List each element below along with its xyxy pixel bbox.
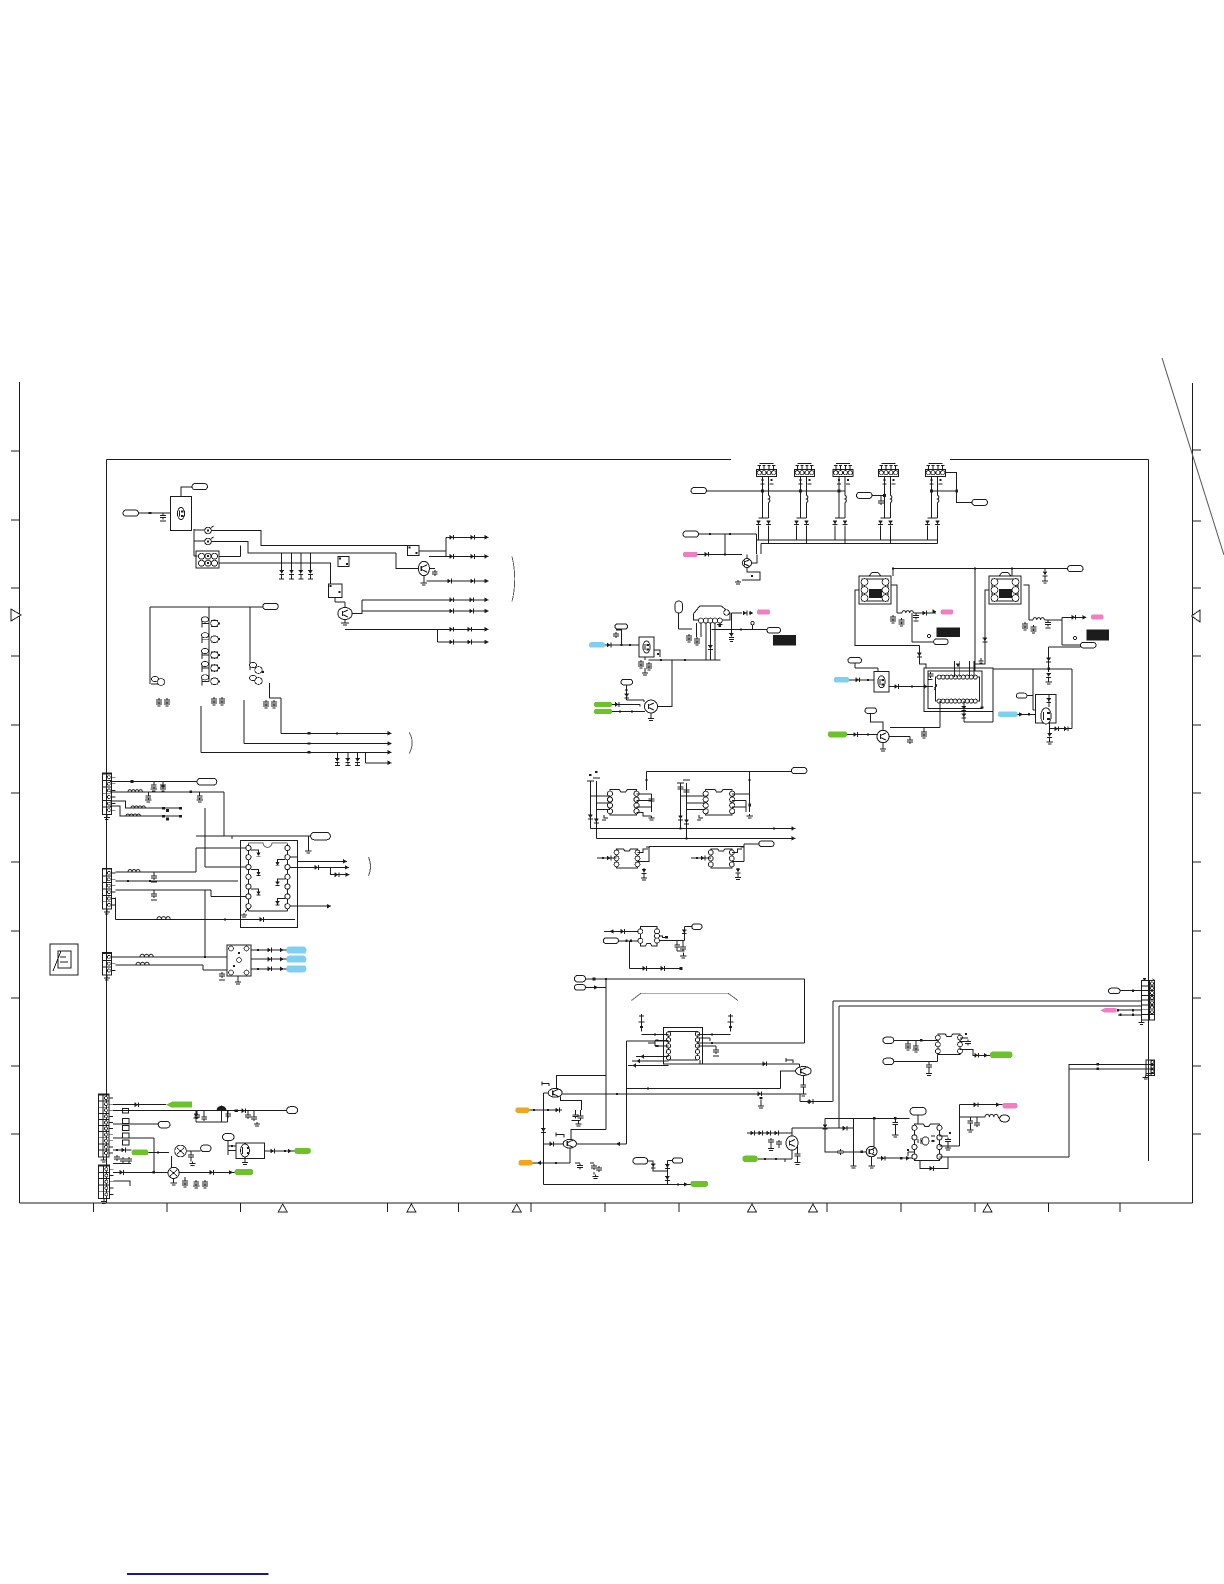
U-F2 right hook xyxy=(732,849,742,852)
ground G-F1 xyxy=(604,815,608,818)
wire K row5 xyxy=(113,1149,132,1151)
wire to Q-I5 xyxy=(543,1143,563,1145)
U-J1 right caps xyxy=(960,1037,968,1039)
wire bus B2 xyxy=(243,700,245,744)
cap C-J3 xyxy=(894,1121,896,1123)
transistor pair QB7 right xyxy=(249,662,251,670)
left ruler triangle marker xyxy=(11,609,21,621)
transistor pair QB1 xyxy=(201,619,203,627)
transistor Q-I2 right flank xyxy=(730,1020,732,1032)
U-I1 right wire to drop xyxy=(698,1042,805,1044)
U-F1 caps xyxy=(643,868,645,870)
wire Q-K1 to PK3 xyxy=(186,1150,200,1152)
wire PC2 to header 4 xyxy=(872,494,885,496)
bus C lower xyxy=(761,543,938,545)
fan-out line L2 xyxy=(429,555,489,557)
wire G3 row2 xyxy=(115,964,203,966)
wire K row1 xyxy=(113,1104,166,1106)
capacitor C-D0 xyxy=(1044,569,1046,572)
left ruler line xyxy=(19,382,21,1203)
wire rail drop left xyxy=(646,771,648,790)
wire Q-K3 row xyxy=(179,1171,235,1173)
transistor pair QB3 xyxy=(201,651,203,659)
wire riser x959 xyxy=(958,1105,960,1146)
label oval PE1 vertical xyxy=(675,601,683,613)
cap C-G5 xyxy=(153,892,155,894)
cap C-D9 left xyxy=(930,672,932,674)
wire J2 web left riser xyxy=(853,1118,855,1151)
U-D1 bottom pin drop mid xyxy=(963,701,965,722)
wire PI2 to riser xyxy=(586,986,606,988)
wire PD3 tail xyxy=(1095,647,1097,649)
wire OR-I2 row xyxy=(533,1162,570,1164)
bracket net-G xyxy=(369,857,371,876)
cyan tag CY-G1 xyxy=(286,947,306,954)
IC U-G1 outer xyxy=(240,840,297,927)
label oval PJ1 xyxy=(1109,988,1121,993)
transistor pair QB2 xyxy=(201,635,203,643)
pink tag PK-J1 arrow xyxy=(1100,1008,1116,1012)
wire PE4 down xyxy=(620,629,622,645)
right connector CN-J2 ladder xyxy=(1146,1060,1154,1075)
transistor D-K1 blob xyxy=(217,1106,227,1111)
right ruler ticks xyxy=(1193,449,1202,451)
label oval PI4 xyxy=(672,1158,682,1163)
gate Q-I5 xyxy=(556,1135,564,1138)
wire U-G1 bottom-left gnd xyxy=(245,909,248,912)
wire F-c xyxy=(649,845,744,847)
wire U-I1 to Q-I2 xyxy=(698,1034,731,1036)
wire B left leg xyxy=(792,1127,854,1129)
Q-D3 top stub xyxy=(1048,694,1050,707)
wire B right drop xyxy=(249,607,251,662)
IC U-J2 xyxy=(914,1124,939,1161)
transistor Q-D3 xyxy=(1041,708,1051,724)
revision tag box xyxy=(50,944,78,975)
wire U-J2 gnd stub xyxy=(908,1151,914,1153)
wire WD right rail xyxy=(993,668,1072,670)
ground G-F4 xyxy=(749,814,751,816)
label oval PC1 xyxy=(691,488,707,494)
U-I1 bottom-left arrows xyxy=(636,1056,669,1058)
T-F1 right outputs xyxy=(637,793,652,795)
cyan tag CY-D2 xyxy=(998,711,1018,717)
fan-out line L3 xyxy=(427,580,489,582)
caps C-K3 xyxy=(247,1113,249,1115)
label oval PJ4 xyxy=(910,1107,926,1115)
wire B top rail xyxy=(150,606,263,608)
drop I-right xyxy=(803,979,805,1043)
IC U-G2 xyxy=(227,945,251,976)
wire D top rail xyxy=(893,568,1068,570)
wire F-A2 to Q-A2 xyxy=(396,553,419,568)
wire B left drop xyxy=(149,607,151,676)
caps C-J2 xyxy=(928,1063,930,1065)
label oval PE4 xyxy=(615,624,628,629)
transistor Q-I5 xyxy=(563,1139,576,1148)
schematic border right edge xyxy=(1148,460,1150,1162)
cyan tag CY-D1 xyxy=(834,677,849,683)
connector CN-J1 right edge ladder xyxy=(1142,981,1155,1020)
wire Q-I3 top feed xyxy=(557,1076,606,1089)
label oval PD2 xyxy=(934,639,949,645)
wire PI4 drop xyxy=(667,1159,672,1161)
wire bridge out upper xyxy=(219,555,241,557)
caps C-I2 xyxy=(575,1110,577,1113)
cyan tag CY-E xyxy=(589,642,605,648)
wire U-E1 to pink xyxy=(732,612,743,614)
resistor R-G1b xyxy=(162,815,165,818)
wire CN-J2 feed pair xyxy=(1069,1064,1146,1157)
caps C-K1 xyxy=(196,1111,198,1113)
cyan tag CY-G2 xyxy=(286,956,306,963)
wire Q-C1 net xyxy=(752,554,758,563)
IC U-G1 body rails xyxy=(247,844,249,912)
gate Q-I3 xyxy=(542,1084,549,1087)
wire U-I1 right-top xyxy=(698,1037,711,1039)
U-D1 bottom loop xyxy=(964,721,993,723)
caps under row5 xyxy=(116,1155,118,1157)
wire X-D2 right out xyxy=(1024,585,1030,620)
U-J2 right glyph xyxy=(932,1140,935,1142)
Q-D3 emitter gnd xyxy=(1049,729,1051,733)
capacitor C-C4 xyxy=(880,499,882,501)
caps C-D1 xyxy=(892,615,894,617)
tiny circle node D2 xyxy=(927,634,930,637)
schematic border top-right segment xyxy=(950,459,1149,461)
transistor Q-J1 xyxy=(866,1146,877,1156)
header J-C4 xyxy=(879,470,899,477)
label oval PF1 xyxy=(791,768,807,774)
wire Q-I5 top xyxy=(571,1129,606,1139)
cap C-G4 xyxy=(153,874,155,876)
wire header5 to PC3 xyxy=(946,473,973,503)
black patch BB-E xyxy=(773,635,796,646)
ground G-K3 xyxy=(173,1179,175,1182)
bus C upper xyxy=(757,539,938,541)
fan-out line L4 xyxy=(362,599,489,601)
wire bus B4 xyxy=(365,762,391,764)
coil L-D2 xyxy=(1029,619,1033,621)
bottom border triangle markers xyxy=(278,1204,287,1212)
ground G-J1 xyxy=(853,1152,855,1164)
wire pink row xyxy=(698,553,743,555)
cap C-J4 on wire xyxy=(840,1149,842,1151)
wire U-J2 right2 xyxy=(939,1135,948,1137)
label oval PG1 xyxy=(197,778,217,785)
resistor R-K2 xyxy=(235,1110,238,1112)
wire PH1 to U-H1 xyxy=(619,940,638,942)
label oval PK1 xyxy=(287,1107,298,1114)
transistor Q-D1 box xyxy=(874,672,889,693)
U-F1 right wire xyxy=(637,861,649,863)
wire Q-A1 emitter down to bridge xyxy=(194,555,198,557)
wire G3 row1 xyxy=(115,956,226,958)
riser I-mid xyxy=(625,1041,627,1089)
cap C-D4 xyxy=(1047,621,1049,623)
wire X-D2 left drop xyxy=(975,590,989,671)
cap C-D2 xyxy=(915,614,917,616)
label oval PF2 xyxy=(759,841,774,847)
gate Q-I4 xyxy=(786,1060,793,1063)
photo-coupler D-A2 xyxy=(205,538,212,545)
caps C-I6 xyxy=(770,1138,772,1140)
wire CY-E to Q-E1 xyxy=(605,644,639,646)
cap C-D8 xyxy=(979,660,984,662)
U-F2 right wire xyxy=(732,861,744,863)
wire B mid drop xyxy=(208,607,210,681)
wire PJ3 to U-J1 xyxy=(894,1061,938,1063)
cap C-D10 xyxy=(923,728,925,730)
wire G2 row2 xyxy=(115,880,237,882)
fan-out line L5 xyxy=(362,610,489,612)
transistor Q-A3 xyxy=(338,608,352,620)
diode bridge DB-A xyxy=(196,551,219,568)
wire bus B3 xyxy=(200,706,202,752)
wire rail into X-D1 xyxy=(892,569,894,577)
wire PK-J1 to CN-J1 xyxy=(1118,1009,1142,1011)
label oval PH1 xyxy=(603,938,618,944)
wire U-J2 out long xyxy=(939,1156,1068,1158)
brace arc I xyxy=(632,993,739,1000)
wire riser x874 xyxy=(873,1118,875,1147)
resistor R-A1 xyxy=(148,512,151,514)
wire U-G2 out3 xyxy=(251,968,286,970)
bracket net-A xyxy=(512,557,515,602)
wire PD3 drop xyxy=(1049,646,1081,648)
lower box F-A3 xyxy=(328,584,342,598)
black patch BB-D1 xyxy=(937,627,961,637)
wire bus B1 xyxy=(268,683,270,698)
U-F2 left wire xyxy=(691,857,711,859)
U-F2 caps xyxy=(737,868,739,870)
wire Q-K1 drop xyxy=(170,1156,172,1169)
label oval PA1 xyxy=(192,484,208,490)
caps C-J5 xyxy=(969,1119,971,1121)
transistor Q-I6 xyxy=(786,1136,798,1150)
ground G-G2 xyxy=(237,976,239,980)
wire PD6 down xyxy=(871,713,884,730)
caps C-I7 xyxy=(797,1146,799,1152)
caps C-K2 xyxy=(227,1112,229,1114)
label oval PB1 xyxy=(263,603,279,609)
label oval PD4 xyxy=(848,658,862,664)
wire K row4 xyxy=(113,1137,154,1139)
wire PJ1 to CN-J1 xyxy=(1120,990,1142,992)
wire PA2 to Q-A1 xyxy=(139,512,171,514)
connector CN-K1 xyxy=(98,1094,109,1157)
wire CN-K2 to riser xyxy=(113,1171,168,1173)
U-D1 top feed stubs xyxy=(953,661,955,677)
wire G row4 xyxy=(110,806,181,816)
IC U-E1 trapezoid xyxy=(694,606,730,620)
wire F-c left drop xyxy=(648,846,650,862)
caps CB3 under right xyxy=(265,700,267,702)
caps C-K5 xyxy=(184,1177,186,1179)
right ruler triangle marker xyxy=(1192,610,1201,622)
Q-D3 outer box xyxy=(1035,694,1056,722)
capacitor C-A1 xyxy=(162,514,164,516)
wire OR-I1 row xyxy=(529,1109,562,1111)
label oval PD5 xyxy=(1016,693,1027,698)
transistor Q-C1 xyxy=(743,559,752,568)
transistor pair QB4 xyxy=(201,664,203,672)
transistor QB6 left single xyxy=(151,676,158,681)
IC U-D1 body xyxy=(935,677,979,701)
wire U-G1 out bottom xyxy=(290,905,331,907)
wire K row2 long xyxy=(113,1110,287,1112)
label oval PJ2 xyxy=(883,1037,894,1043)
ground G-E1 xyxy=(644,668,646,671)
hanging caps on bus B3 xyxy=(336,752,338,758)
wire I-left riser xyxy=(542,1093,544,1185)
bracket net-B xyxy=(409,732,412,753)
wire PJ5 coil xyxy=(959,1116,985,1118)
wire F top rail xyxy=(647,770,792,772)
wire PE1 down xyxy=(678,613,680,629)
wire G riser from row2 xyxy=(223,792,225,836)
wire GR-K2 to Q-K1 xyxy=(148,1151,169,1153)
caps C-H1 xyxy=(676,941,678,943)
U-F1 right hook xyxy=(637,849,648,852)
bus F-a xyxy=(590,828,795,830)
wire Q-I5 right arrow xyxy=(576,1143,626,1145)
Q-E1 bottom caps xyxy=(644,657,646,660)
ground G-F3 xyxy=(651,816,653,818)
transistor Q-D2 xyxy=(877,730,889,742)
fan-out line L6 xyxy=(345,628,489,630)
IC U-D1 outer shield boxes xyxy=(924,668,993,711)
U-E1 bottom drops xyxy=(705,623,707,660)
U-G1 right diode glyphs xyxy=(278,860,286,863)
U-H1 gate stub xyxy=(660,936,666,937)
transformer T-F2 xyxy=(706,790,733,816)
label oval PJ3 xyxy=(883,1058,894,1064)
transistor Q-E1 box xyxy=(639,637,654,657)
pink tag PK-J2 xyxy=(1003,1103,1018,1109)
wire Q-J1 to U-J2 xyxy=(877,1157,914,1159)
header J-C3 xyxy=(833,470,853,477)
wire PC5 xyxy=(699,533,757,535)
wire U-H1 left in xyxy=(604,930,638,932)
wire TR hook xyxy=(799,1064,801,1067)
capacitor bank C-A2..C-A5 xyxy=(281,553,283,570)
connector CN-K2 xyxy=(98,1165,109,1199)
wire B to Q-I6 xyxy=(791,1128,793,1136)
wire G row3 xyxy=(110,801,181,808)
wire PE3 down to Q-E2 xyxy=(626,685,628,700)
ground G-D3 xyxy=(1048,678,1050,680)
wire rail drop right xyxy=(749,771,751,812)
riser I-left xyxy=(605,979,607,1129)
wire vert to PD2 xyxy=(911,613,913,642)
wire U-J1 to green xyxy=(960,1050,990,1056)
wire row to PE2 xyxy=(712,628,768,630)
IC U-J1 xyxy=(938,1034,960,1055)
wire G row2 xyxy=(110,791,224,793)
wire X-D1 left loop xyxy=(855,590,919,646)
wire U-G2 out1 xyxy=(251,949,286,951)
wire Q-A3 to fan xyxy=(352,600,362,614)
header J-C1 xyxy=(757,470,777,477)
header J-C2 xyxy=(795,470,815,477)
wire B vertical xyxy=(838,1006,840,1128)
wire G2 row1 xyxy=(115,871,196,873)
ground G-I6 xyxy=(784,1159,786,1162)
caps CB1 under left xyxy=(158,698,160,700)
wire PI3 junction xyxy=(648,1161,668,1171)
wire U-G1 right out2 xyxy=(290,866,349,868)
green tag GR-E1 xyxy=(594,702,612,707)
wire B to web xyxy=(853,1127,855,1129)
wire rail into X-D2 xyxy=(1011,569,1013,577)
label oval PI1 xyxy=(574,976,585,982)
wire G riser x205 xyxy=(204,890,206,957)
wire U-H1 drop xyxy=(628,941,630,969)
bottom rail I xyxy=(543,1183,690,1185)
wire rail drop to IC-D xyxy=(974,569,976,665)
title block blue rule xyxy=(127,1573,269,1575)
transistor Q-A1 box xyxy=(171,497,192,531)
label oval PE3 xyxy=(621,679,633,685)
left ruler ticks xyxy=(11,450,20,452)
label oval PI3 xyxy=(633,1158,648,1164)
label oval PE2 xyxy=(767,627,781,633)
green tag GR-K3 xyxy=(294,1148,311,1154)
crystal module X-D2 xyxy=(989,576,1021,604)
IC U-I1 xyxy=(669,1032,698,1061)
wire vert to PD3 xyxy=(1061,620,1063,645)
U-D1 mark xyxy=(981,706,984,708)
wire G bottom rail xyxy=(115,918,295,920)
wire GR-I2 to Q-I6 xyxy=(758,1158,792,1160)
caps C-J1 xyxy=(907,1042,909,1044)
cap C-D7 xyxy=(956,663,960,665)
label oval PK3 xyxy=(201,1145,211,1152)
label oval PA2 xyxy=(123,510,139,516)
fan vertical L6-L7 xyxy=(436,629,438,642)
transistor Q-K2 box xyxy=(236,1143,265,1159)
black patch BB-D2 xyxy=(1086,630,1109,641)
caps C-E1 under U-E1 xyxy=(688,634,690,636)
wire PD5 net xyxy=(1027,695,1033,697)
wire G2 top entry xyxy=(231,836,233,839)
connector CN-G3 xyxy=(102,953,111,975)
diode row H xyxy=(629,967,681,969)
component R-K1 on row2 xyxy=(123,1109,129,1113)
label oval PH2 xyxy=(692,924,702,930)
caps C-K4 xyxy=(190,1151,192,1153)
diode row I-bottom xyxy=(747,1132,787,1134)
transformer T-F1 xyxy=(610,790,637,816)
orange tag OR-I1 xyxy=(515,1107,529,1113)
fan-out vertical xyxy=(445,537,447,556)
fan-out line L1 xyxy=(446,536,489,538)
relay R-K3 xyxy=(123,1119,130,1124)
green tag GR-K1 arrow xyxy=(166,1102,192,1108)
green tag GR-I2 xyxy=(743,1156,758,1162)
pink tag PK-D1 xyxy=(941,609,954,614)
label oval PK4 xyxy=(223,1134,235,1141)
resistor R-G1a xyxy=(162,807,165,810)
wire X-D1 right out xyxy=(891,585,897,613)
cap C-G3b xyxy=(199,792,201,794)
wire GR-D to Q-D2 xyxy=(847,734,877,736)
wire Q-A1 to PA1 xyxy=(181,487,192,497)
wire CN-J1 pin6 xyxy=(1118,1014,1142,1016)
wire CY-D2 xyxy=(1018,713,1036,715)
label oval PJ5 xyxy=(1000,1115,1010,1122)
